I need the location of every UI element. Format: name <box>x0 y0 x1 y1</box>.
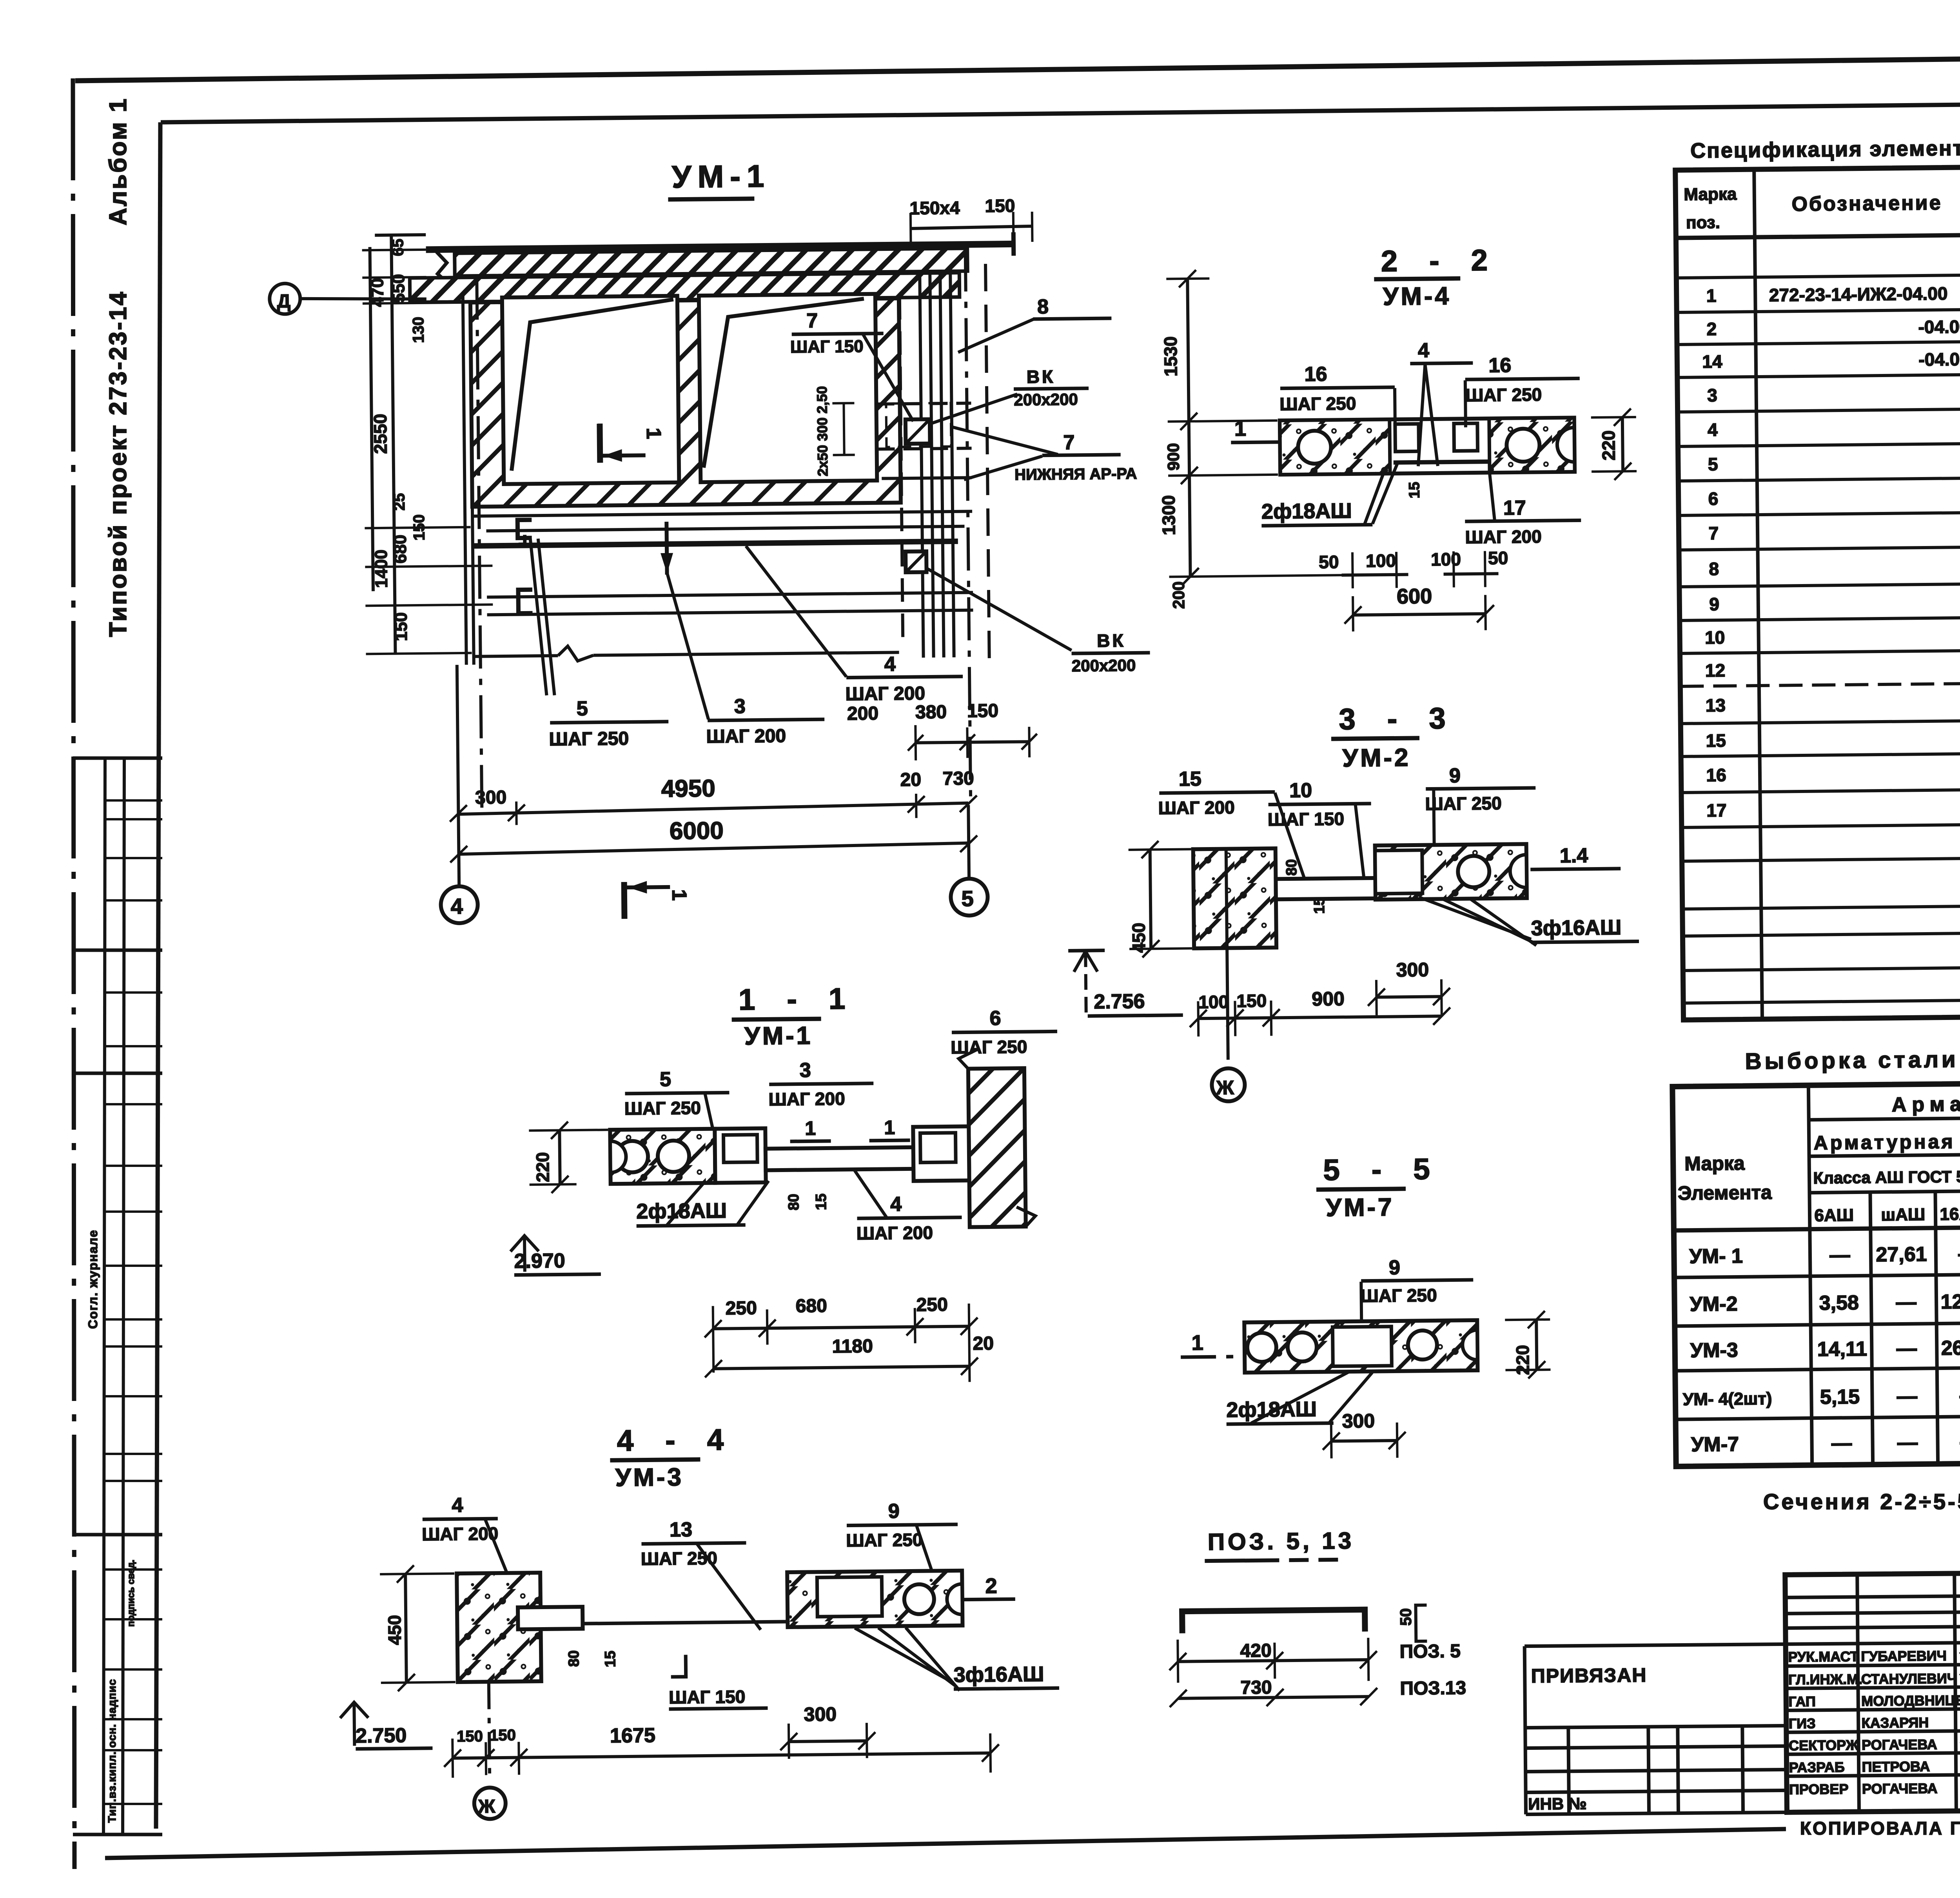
svg-text:7: 7 <box>806 309 818 332</box>
svg-text:15: 15 <box>1311 897 1328 914</box>
top border line <box>75 53 1960 81</box>
svg-text:УМ-4: УМ-4 <box>1383 282 1451 311</box>
svg-text:680: 680 <box>391 535 410 564</box>
svg-text:УМ-1: УМ-1 <box>671 158 770 194</box>
svg-text:2.750: 2.750 <box>356 1724 407 1747</box>
thin slab strip <box>1276 878 1409 899</box>
svg-text:2ф18АШ: 2ф18АШ <box>1226 1397 1317 1422</box>
svg-text:300: 300 <box>1396 959 1429 981</box>
svg-text:Сечения 2-2÷5-5 см. л.35, 37: Сечения 2-2÷5-5 см. л.35, 37 <box>1763 1489 1960 1514</box>
window 1 <box>502 296 679 484</box>
svg-text:ИНВ №: ИНВ № <box>1528 1794 1587 1813</box>
svg-text:3,58: 3,58 <box>1819 1292 1859 1315</box>
right columns zone <box>875 272 973 658</box>
axis circles 4 and 5 <box>441 886 478 924</box>
svg-text:1675: 1675 <box>610 1724 655 1747</box>
svg-text:РОГАЧЕВА: РОГАЧЕВА <box>1862 1736 1937 1753</box>
svg-text:ПРИВЯЗАН: ПРИВЯЗАН <box>1531 1664 1647 1687</box>
svg-text:ВК: ВК <box>1097 630 1126 651</box>
шаг 150 label <box>671 1655 686 1677</box>
svg-text:100: 100 <box>1198 992 1229 1013</box>
level 2.756 <box>1068 949 1105 953</box>
svg-text:Альбом 1: Альбом 1 <box>105 97 132 225</box>
svg-text:Марка: Марка <box>1684 1152 1745 1174</box>
svg-text:150: 150 <box>490 1727 516 1744</box>
svg-text:250: 250 <box>725 1298 757 1319</box>
svg-text:680: 680 <box>795 1296 827 1317</box>
svg-text:ШАГ 250: ШАГ 250 <box>1360 1285 1437 1306</box>
right hollow core slab <box>1375 844 1527 900</box>
signature rows <box>1786 1664 1960 1666</box>
svg-text:1: 1 <box>642 428 665 439</box>
svg-text:220: 220 <box>1598 430 1619 461</box>
svg-text:УМ-3: УМ-3 <box>1690 1339 1738 1362</box>
svg-text:Класса АШ ГОСТ 5.1459-72*, ф м: Класса АШ ГОСТ 5.1459-72*, ф мм <box>1813 1166 1960 1187</box>
svg-text:УМ-1: УМ-1 <box>744 1021 813 1050</box>
svg-text:2х50 300 2,50: 2х50 300 2,50 <box>814 386 831 477</box>
svg-text:150: 150 <box>410 514 428 541</box>
svg-text:15: 15 <box>1706 730 1726 751</box>
svg-text:3ф16АШ: 3ф16АШ <box>953 1662 1044 1687</box>
svg-text:150: 150 <box>391 612 411 641</box>
svg-text:730: 730 <box>1240 1677 1272 1698</box>
svg-text:ШАГ 250: ШАГ 250 <box>624 1098 701 1119</box>
svg-text:20: 20 <box>973 1333 994 1354</box>
svg-text:4: 4 <box>1708 419 1718 440</box>
hatched band 1 <box>455 249 967 276</box>
svg-text:17: 17 <box>1706 800 1727 820</box>
svg-text:Элемента: Элемента <box>1678 1181 1773 1204</box>
2.750 level <box>340 1702 368 1718</box>
leaders to labels below <box>530 539 547 695</box>
svg-text:-04.00: -04.00 <box>1918 349 1960 370</box>
svg-text:ШАГ 200: ШАГ 200 <box>1465 526 1542 547</box>
svg-text:4: 4 <box>1418 339 1430 362</box>
bottom dim lines <box>457 665 459 887</box>
svg-text:Д: Д <box>277 291 291 312</box>
svg-text:ШАГ 250: ШАГ 250 <box>1425 793 1502 814</box>
svg-text:250: 250 <box>916 1294 948 1316</box>
break notch top-left <box>437 252 448 283</box>
second top frame line <box>161 99 1960 122</box>
svg-text:15: 15 <box>813 1194 829 1210</box>
svg-text:26,02: 26,02 <box>1941 1336 1960 1359</box>
section mark 1 bottom <box>621 882 628 919</box>
svg-text:5,15: 5,15 <box>1820 1386 1860 1409</box>
thin top rows <box>1785 1595 1960 1598</box>
svg-text:730: 730 <box>942 768 974 789</box>
svg-text:3: 3 <box>734 695 746 718</box>
right hollow-core part <box>1489 418 1575 473</box>
svg-text:ШАГ 150: ШАГ 150 <box>790 337 864 357</box>
svg-text:Типовой проект 273-23-14: Типовой проект 273-23-14 <box>105 290 132 637</box>
wall block <box>1193 848 1276 948</box>
svg-text:4: 4 <box>452 1494 463 1517</box>
main block frame <box>1785 1569 1960 1813</box>
svg-text:8: 8 <box>1709 559 1719 579</box>
svg-text:2ф18АШ: 2ф18АШ <box>1261 499 1352 523</box>
svg-text:130: 130 <box>410 317 427 343</box>
svg-text:УМ-7: УМ-7 <box>1326 1193 1394 1222</box>
svg-text:272-23-14-ИЖ2-04.00: 272-23-14-ИЖ2-04.00 <box>1769 283 1948 305</box>
svg-text:80: 80 <box>786 1194 802 1210</box>
svg-text:900: 900 <box>1312 988 1345 1010</box>
svg-text:300: 300 <box>475 787 507 808</box>
svg-text:РАЗРАБ: РАЗРАБ <box>1789 1759 1844 1775</box>
svg-text:ШАГ 200: ШАГ 200 <box>857 1222 933 1243</box>
svg-text:150: 150 <box>457 1728 483 1746</box>
svg-text:3: 3 <box>1707 385 1717 405</box>
svg-text:3ф16АШ: 3ф16АШ <box>1531 916 1621 940</box>
svg-text:9: 9 <box>1449 764 1461 787</box>
top slab bold line <box>426 244 1014 249</box>
svg-text:8: 8 <box>1037 296 1049 318</box>
svg-text:4: 4 <box>450 894 463 918</box>
svg-text:—: — <box>1829 1244 1850 1267</box>
svg-text:10: 10 <box>1289 779 1312 802</box>
svg-text:450: 450 <box>384 1615 405 1645</box>
svg-text:УМ-2: УМ-2 <box>1342 743 1411 772</box>
svg-text:16: 16 <box>1706 765 1726 785</box>
svg-text:12: 12 <box>1705 660 1726 680</box>
450 left <box>405 1574 407 1682</box>
svg-text:3: 3 <box>800 1059 811 1081</box>
svg-text:ШАГ 250: ШАГ 250 <box>846 1530 923 1551</box>
svg-text:ШАГ 200: ШАГ 200 <box>1158 797 1235 818</box>
svg-text:МОЛОДВНИЦЕВА: МОЛОДВНИЦЕВА <box>1861 1692 1960 1709</box>
svg-text:20: 20 <box>900 769 921 791</box>
svg-text:1400: 1400 <box>372 550 391 588</box>
axis Д circle left <box>269 283 300 314</box>
bottom frame <box>105 1829 1786 1858</box>
svg-text:КАЗАРЯН: КАЗАРЯН <box>1862 1715 1929 1731</box>
VK square upper <box>906 419 930 444</box>
svg-text:СЕКТОРЖ: СЕКТОРЖ <box>1789 1737 1859 1753</box>
data rows <box>1701 241 1960 896</box>
svg-text:14,11: 14,11 <box>1817 1337 1867 1361</box>
svg-text:2: 2 <box>1706 319 1717 339</box>
left slab with cores <box>610 1129 715 1184</box>
svg-text:5: 5 <box>1708 454 1718 474</box>
left page border (dashed) <box>73 78 74 1869</box>
svg-text:—: — <box>1831 1432 1852 1455</box>
svg-text:1: 1 <box>805 1117 816 1139</box>
svg-text:КОПИРОВАЛА ГАВРИЛИНА: КОПИРОВАЛА ГАВРИЛИНА <box>1800 1818 1960 1838</box>
svg-text:50: 50 <box>1488 548 1508 568</box>
svg-text:900: 900 <box>1164 443 1183 471</box>
svg-text:2550: 2550 <box>370 414 391 454</box>
svg-text:420: 420 <box>1240 1640 1272 1662</box>
svg-text:Арматурная сталь: Арматурная сталь <box>1813 1130 1960 1154</box>
wall block <box>457 1573 541 1682</box>
svg-text:150: 150 <box>1236 991 1267 1011</box>
svg-text:17: 17 <box>1503 497 1526 520</box>
svg-text:ШАГ 250: ШАГ 250 <box>1465 384 1542 405</box>
right slab segment <box>787 1571 962 1627</box>
svg-text:100: 100 <box>1366 550 1396 571</box>
svg-text:300: 300 <box>804 1703 837 1726</box>
svg-text:ШАГ 150: ШАГ 150 <box>1268 809 1345 830</box>
svg-text:СТАНУЛЕВИЧ: СТАНУЛЕВИЧ <box>1861 1670 1957 1687</box>
2.970 level <box>510 1236 539 1252</box>
wall with openings <box>470 298 901 506</box>
svg-text:16АШ: 16АШ <box>1940 1204 1960 1224</box>
svg-text:ПРОВЕР: ПРОВЕР <box>1789 1781 1849 1797</box>
svg-text:Тип.вз.кипл. осн. надпис: Тип.вз.кипл. осн. надпис <box>106 1679 118 1823</box>
svg-text:50: 50 <box>1397 1608 1415 1626</box>
svg-text:5: 5 <box>577 697 588 720</box>
svg-text:2.970: 2.970 <box>514 1249 565 1272</box>
svg-text:7: 7 <box>1063 431 1074 454</box>
svg-text:—: — <box>1897 1385 1918 1408</box>
slab band <box>1280 418 1575 475</box>
thin strip to right <box>766 1147 914 1170</box>
svg-text:220: 220 <box>532 1152 553 1182</box>
svg-text:—: — <box>1897 1431 1918 1454</box>
svg-text:16: 16 <box>1488 354 1511 377</box>
svg-text:поз.: поз. <box>1686 213 1720 232</box>
left dim chains <box>370 247 373 591</box>
right wall hatched <box>968 1068 1026 1227</box>
svg-text:ГЛ.ИНЖ.М.: ГЛ.ИНЖ.М. <box>1788 1671 1863 1688</box>
svg-text:Ж: Ж <box>478 1796 496 1817</box>
frame <box>1675 161 1960 1020</box>
window 2 <box>699 294 877 482</box>
svg-text:ШАГ 250: ШАГ 250 <box>951 1036 1027 1058</box>
svg-text:ШАГ 250: ШАГ 250 <box>549 728 629 750</box>
svg-text:подпись свед.: подпись свед. <box>126 1560 136 1627</box>
svg-text:4950: 4950 <box>661 775 716 802</box>
svg-text:4: 4 <box>884 653 896 675</box>
svg-text:НИЖНЯЯ АР-РА: НИЖНЯЯ АР-РА <box>1014 465 1137 483</box>
signatures squiggles <box>1960 1647 1960 1788</box>
svg-text:РУК.МАСТ: РУК.МАСТ <box>1788 1648 1858 1665</box>
svg-text:150х4: 150х4 <box>909 198 960 218</box>
dim line 2 <box>1178 1697 1369 1698</box>
svg-text:ГИЗ: ГИЗ <box>1789 1715 1816 1732</box>
left hollow-core part <box>1280 419 1390 475</box>
svg-text:15: 15 <box>602 1651 619 1668</box>
svg-text:1300: 1300 <box>1158 495 1179 535</box>
slab <box>1244 1320 1477 1373</box>
svg-text:Арматурные изделия: Арматурные изделия <box>1892 1091 1960 1116</box>
svg-text:УМ-3: УМ-3 <box>615 1463 684 1492</box>
svg-text:100: 100 <box>1431 549 1461 570</box>
svg-text:Марка: Марка <box>1684 185 1737 204</box>
svg-text:27,61: 27,61 <box>1876 1243 1927 1266</box>
svg-text:1: 1 <box>668 889 690 900</box>
svg-text:10: 10 <box>1705 627 1725 648</box>
right end block <box>913 1126 969 1181</box>
svg-text:Согл. журнале: Согл. журнале <box>86 1229 100 1329</box>
svg-text:УМ- 1: УМ- 1 <box>1689 1245 1743 1268</box>
axis dash-dot lines <box>477 277 482 808</box>
svg-text:25: 25 <box>391 493 408 511</box>
svg-text:УМ-7: УМ-7 <box>1691 1433 1739 1456</box>
middle formwork boxes <box>715 1128 766 1183</box>
svg-text:-04.00: -04.00 <box>1918 316 1960 337</box>
svg-text:ПЕТРОВА: ПЕТРОВА <box>1862 1758 1930 1775</box>
svg-text:200х200: 200х200 <box>1072 656 1136 675</box>
svg-text:5 - 5: 5 - 5 <box>1323 1152 1442 1187</box>
svg-text:600: 600 <box>1397 584 1432 608</box>
left dim chain of 2-2 <box>1187 279 1190 577</box>
svg-text:15: 15 <box>1179 768 1201 791</box>
VK square lower + label <box>906 552 927 573</box>
svg-text:Выборка стали на 1 изделие,: Выборка стали на 1 изделие, кг. <box>1745 1044 1960 1074</box>
svg-text:ШАГ 150: ШАГ 150 <box>669 1686 746 1707</box>
svg-text:450: 450 <box>1128 923 1149 953</box>
bent bar <box>1182 1609 1365 1633</box>
svg-text:15: 15 <box>1406 482 1423 499</box>
svg-text:ГАП: ГАП <box>1788 1693 1816 1710</box>
svg-text:80: 80 <box>566 1650 582 1667</box>
svg-text:14: 14 <box>1702 351 1722 372</box>
data rows <box>1681 1237 1960 1456</box>
svg-text:9: 9 <box>888 1500 899 1522</box>
slab area below wall <box>472 511 972 516</box>
svg-text:16: 16 <box>1304 363 1327 386</box>
svg-text:шАШ: шАШ <box>1881 1205 1925 1225</box>
svg-text:50: 50 <box>1319 552 1339 572</box>
svg-text:9: 9 <box>1709 594 1719 614</box>
svg-text:РОГАЧЕВА: РОГАЧЕВА <box>1862 1780 1938 1797</box>
svg-text:ШАГ 250: ШАГ 250 <box>1279 393 1356 414</box>
svg-text:ВК: ВК <box>1027 366 1056 387</box>
svg-text:4 - 4: 4 - 4 <box>617 1423 736 1457</box>
svg-text:1 - 1: 1 - 1 <box>739 982 857 1016</box>
svg-text:380: 380 <box>915 702 947 723</box>
left annex <box>1524 1644 1787 1814</box>
svg-text:65: 65 <box>389 239 407 256</box>
svg-text:—: — <box>1958 1243 1960 1265</box>
svg-text:1180: 1180 <box>832 1336 873 1357</box>
svg-text:1: 1 <box>1706 285 1717 306</box>
svg-text:9: 9 <box>1389 1256 1400 1279</box>
svg-text:5: 5 <box>961 886 974 911</box>
hatched band 2 <box>410 273 960 302</box>
svg-text:Ж: Ж <box>1216 1076 1234 1098</box>
svg-text:2ф18АШ: 2ф18АШ <box>636 1199 727 1223</box>
svg-text:ПОЗ. 5, 13: ПОЗ. 5, 13 <box>1208 1528 1355 1555</box>
svg-text:4: 4 <box>890 1193 902 1216</box>
svg-text:150: 150 <box>967 700 999 722</box>
svg-text:1530: 1530 <box>1160 336 1181 377</box>
svg-text:12,63: 12,63 <box>1940 1290 1960 1313</box>
svg-text:—: — <box>1896 1291 1916 1314</box>
450 dim left <box>1150 849 1151 949</box>
svg-text:ГУБАРЕВИЧ: ГУБАРЕВИЧ <box>1861 1648 1947 1664</box>
axis + Ж circle <box>489 1682 490 1781</box>
svg-text:ШАГ 200: ШАГ 200 <box>706 726 786 747</box>
svg-text:2: 2 <box>985 1574 997 1598</box>
inner frame left vertical <box>156 122 160 1829</box>
svg-text:5: 5 <box>660 1068 671 1091</box>
svg-text:7: 7 <box>1708 523 1719 543</box>
svg-text:УМ- 4(2шт): УМ- 4(2шт) <box>1683 1389 1772 1409</box>
svg-text:1.4: 1.4 <box>1560 844 1588 867</box>
E brackets <box>517 520 532 538</box>
small strip right of block <box>518 1607 583 1629</box>
svg-text:2.756: 2.756 <box>1094 990 1145 1013</box>
svg-text:6: 6 <box>1708 488 1719 509</box>
svg-text:200: 200 <box>847 703 879 724</box>
svg-text:6АШ: 6АШ <box>1814 1206 1854 1225</box>
svg-text:200х200: 200х200 <box>1014 390 1078 409</box>
svg-text:2 - 2: 2 - 2 <box>1381 243 1499 278</box>
svg-text:80: 80 <box>1283 859 1300 876</box>
svg-text:6: 6 <box>989 1007 1001 1030</box>
svg-text:1: 1 <box>884 1116 895 1138</box>
svg-text:300: 300 <box>1342 1410 1375 1432</box>
svg-text:ПОЗ.13: ПОЗ.13 <box>1400 1678 1466 1699</box>
svg-text:ШАГ 200: ШАГ 200 <box>768 1089 845 1110</box>
svg-text:1: 1 <box>1191 1331 1203 1355</box>
svg-text:Обозначение: Обозначение <box>1791 192 1942 216</box>
svg-text:—: — <box>1896 1337 1917 1360</box>
svg-text:ШАГ 200: ШАГ 200 <box>845 683 925 705</box>
svg-text:200: 200 <box>1169 581 1188 609</box>
svg-text:ПОЗ. 5: ПОЗ. 5 <box>1399 1641 1461 1662</box>
svg-text:6000: 6000 <box>670 817 724 845</box>
vertical tick with arrow mid-span <box>666 522 667 575</box>
svg-text:470: 470 <box>368 278 387 307</box>
svg-text:13: 13 <box>1706 695 1726 715</box>
svg-text:3 - 3: 3 - 3 <box>1339 702 1457 736</box>
middle joint shapes <box>1395 424 1419 452</box>
svg-text:150: 150 <box>985 195 1015 216</box>
dim line 1 <box>1178 1660 1368 1662</box>
svg-text:УМ-2: УМ-2 <box>1690 1292 1737 1316</box>
axis line + Ж circle <box>1226 849 1228 1060</box>
section mark 1 inside window1 <box>597 424 603 463</box>
svg-text:13: 13 <box>670 1518 692 1541</box>
